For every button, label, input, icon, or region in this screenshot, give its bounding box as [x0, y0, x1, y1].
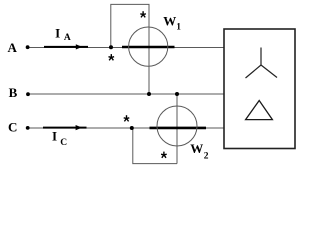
- wire phase B: [27, 93, 224, 95]
- polarity mark W1 voltage coil: [140, 11, 146, 17]
- wire W1 voltage-coil top loop: [111, 4, 149, 47]
- label I_A: [55, 26, 71, 44]
- wire phase C: [28, 127, 225, 129]
- svg-text:B: B: [9, 85, 18, 100]
- svg-text:A: A: [8, 40, 18, 55]
- wire phase A: [27, 47, 225, 49]
- svg-text:1: 1: [176, 23, 181, 33]
- wire W2 voltage-coil bottom loop: [133, 128, 177, 164]
- polarity mark W1 current coil: [109, 54, 115, 60]
- svg-text:W: W: [190, 141, 203, 156]
- wire W1 voltage coil vertical: [148, 4, 150, 94]
- node terminal C: [26, 126, 30, 130]
- label W1: [163, 14, 181, 33]
- node W2 voltage coil on B: [175, 92, 179, 96]
- svg-text:C: C: [8, 120, 17, 135]
- node terminal B: [26, 92, 30, 96]
- polarity mark W2 voltage coil: [161, 152, 167, 158]
- current arrow I_C: [43, 125, 87, 130]
- wattmeter W2 current coil: [150, 127, 207, 130]
- delta load symbol: [246, 101, 273, 120]
- load box: [224, 29, 295, 149]
- polarity mark W2 current coil: [124, 115, 130, 121]
- svg-text:I: I: [52, 129, 57, 144]
- svg-text:I: I: [55, 26, 60, 41]
- svg-text:2: 2: [204, 152, 209, 162]
- current arrow I_A: [44, 44, 88, 49]
- label W2: [190, 141, 209, 162]
- wattmeter W2: [157, 106, 197, 146]
- wattmeter W1 current coil: [122, 46, 175, 49]
- node junction A / W1 current coil tap: [109, 45, 113, 49]
- node terminal A: [26, 45, 30, 49]
- svg-text:C: C: [60, 138, 67, 148]
- svg-text:W: W: [163, 14, 176, 29]
- wattmeter W1: [129, 27, 168, 66]
- wire W2 voltage coil vertical: [176, 94, 178, 164]
- svg-text:A: A: [64, 33, 71, 43]
- node junction C / W2 current coil tap: [130, 126, 134, 130]
- wye (star) load symbol: [246, 48, 278, 79]
- label I_C: [52, 129, 67, 148]
- node W1 voltage coil on B: [147, 92, 151, 96]
